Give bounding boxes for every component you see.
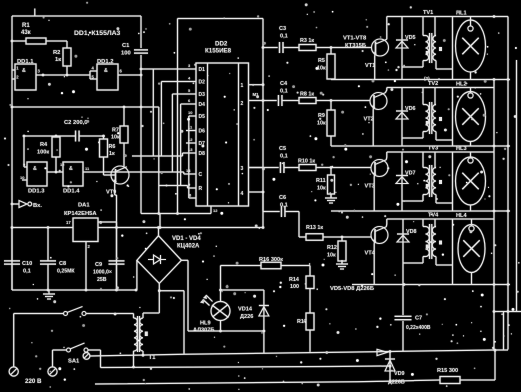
svg-text:КЦ402А: КЦ402А bbox=[177, 244, 200, 250]
svg-text:D8: D8 bbox=[199, 151, 206, 157]
svg-text:R17: R17 bbox=[297, 319, 307, 325]
svg-text:D4: D4 bbox=[199, 102, 206, 108]
svg-text:VD5-VD8 Д226Б: VD5-VD8 Д226Б bbox=[330, 286, 374, 292]
capacitor C9 bbox=[109, 260, 125, 262]
wire C2 left bbox=[23, 136, 25, 167]
svg-text:R12: R12 bbox=[327, 245, 337, 251]
svg-text:VD6: VD6 bbox=[405, 106, 416, 112]
capacitor C8 bbox=[40, 260, 56, 262]
svg-text:10к: 10к bbox=[317, 66, 326, 72]
wire rail ch3 bbox=[387, 151, 494, 153]
wire bridge bottom bbox=[158, 283, 160, 290]
plug pin 1 bbox=[9, 367, 18, 376]
svg-text:R5: R5 bbox=[318, 58, 325, 64]
svg-text:17: 17 bbox=[66, 220, 71, 225]
svg-text:C4: C4 bbox=[280, 81, 288, 87]
svg-text:D2: D2 bbox=[199, 80, 206, 86]
wire y213 bbox=[141, 213, 211, 215]
capacitor C3 bbox=[263, 47, 278, 49]
svg-text:R15 300: R15 300 bbox=[437, 368, 458, 374]
svg-text:R16 300к: R16 300к bbox=[259, 257, 283, 263]
svg-text:12: 12 bbox=[60, 162, 65, 167]
diode VD5 bbox=[401, 17, 403, 80]
svg-text:TV1: TV1 bbox=[423, 10, 433, 16]
wire left rail bbox=[11, 16, 13, 290]
capacitor C7 bbox=[402, 285, 404, 316]
svg-text:10: 10 bbox=[20, 175, 25, 180]
svg-text:10к: 10к bbox=[317, 186, 326, 192]
bridge VD1-VD4 bbox=[137, 236, 182, 284]
wire rail ch4 bbox=[387, 218, 494, 220]
svg-text:D6: D6 bbox=[199, 129, 206, 135]
wire pin row5 bbox=[189, 115, 196, 117]
svg-text:220 В: 220 В bbox=[25, 378, 42, 385]
wire long bus L1 bbox=[90, 350, 508, 356]
wire ladder v153 bbox=[152, 69, 154, 156]
svg-text:DD1.4: DD1.4 bbox=[63, 189, 80, 195]
svg-text:VD1 - VD4: VD1 - VD4 bbox=[172, 236, 201, 242]
transformer TV2 bbox=[429, 102, 431, 134]
wire block vert ch2 bbox=[452, 88, 454, 147]
lamp HL3 bbox=[456, 157, 486, 205]
svg-text:43к: 43к bbox=[21, 30, 31, 36]
wire bus ch2 bbox=[331, 145, 510, 147]
transistor VT2 bbox=[370, 93, 387, 110]
wire v263 bbox=[262, 19, 264, 228]
wire LED right link bbox=[221, 289, 264, 291]
wire pin row8 bbox=[189, 197, 196, 199]
gate DD1.4 bbox=[63, 162, 83, 186]
wire bus228 left bbox=[12, 227, 73, 229]
svg-text:R: R bbox=[199, 186, 203, 192]
transistor VT9 bbox=[111, 166, 129, 184]
svg-text:&: & bbox=[104, 68, 108, 74]
svg-text:D3: D3 bbox=[199, 92, 206, 98]
transformer TV4 bbox=[429, 224, 431, 259]
svg-text:R6: R6 bbox=[109, 144, 116, 150]
svg-text:VD5: VD5 bbox=[405, 35, 416, 41]
svg-text:100: 100 bbox=[290, 284, 299, 290]
wire ladder v161 bbox=[160, 82, 162, 157]
diode VD6 bbox=[401, 88, 403, 147]
svg-text:25В: 25В bbox=[97, 277, 107, 283]
capacitor C1 bbox=[134, 49, 148, 51]
svg-text:1: 1 bbox=[241, 83, 244, 89]
wire DA1 gnd pin bbox=[85, 242, 87, 291]
svg-text:КТ315Б: КТ315Б bbox=[345, 43, 366, 49]
svg-text:C5: C5 bbox=[279, 146, 286, 152]
lamp HL1 bbox=[456, 20, 486, 72]
wire DD1.2 out bbox=[118, 74, 141, 76]
svg-text:Т1: Т1 bbox=[149, 355, 157, 361]
wire LED bus bbox=[188, 330, 264, 332]
capacitor C10 bbox=[4, 260, 20, 262]
wire mains bot2 bbox=[88, 349, 101, 351]
svg-text:12: 12 bbox=[213, 208, 218, 213]
wire R15 up bbox=[494, 350, 496, 380]
wire pin row4 bbox=[181, 103, 196, 105]
svg-text:DA1: DA1 bbox=[78, 203, 90, 209]
IC DD2 outer loop bbox=[178, 18, 264, 20]
wire ladder v180 bbox=[180, 104, 182, 186]
transistor VT3 bbox=[371, 160, 388, 177]
capacitor C4 bbox=[263, 100, 277, 102]
IC DD2 box bbox=[196, 63, 249, 206]
wire mains top bbox=[14, 313, 64, 315]
resistor R2 bbox=[63, 48, 71, 66]
svg-text:2: 2 bbox=[241, 101, 244, 107]
wire VT3 collector bbox=[385, 152, 388, 160]
wire DD2 pin3 bbox=[249, 167, 264, 169]
wire DD2 pin4 bbox=[249, 191, 264, 193]
wire top rail block1 bbox=[12, 15, 141, 17]
svg-text:0,1: 0,1 bbox=[280, 154, 288, 160]
transformer TV3 bbox=[429, 165, 431, 197]
resistor R3 bbox=[299, 45, 316, 51]
resistor R5 bbox=[327, 54, 335, 79]
wire bridge left down bbox=[136, 260, 138, 290]
svg-text:13: 13 bbox=[188, 147, 193, 152]
svg-text:HL4: HL4 bbox=[456, 213, 467, 219]
svg-text:VT1: VT1 bbox=[365, 63, 375, 69]
svg-text:C7: C7 bbox=[415, 316, 422, 322]
wire pin row3 bbox=[172, 93, 196, 95]
svg-text:14: 14 bbox=[186, 168, 191, 173]
svg-text:0,1: 0,1 bbox=[23, 269, 31, 275]
transformer TV1 bbox=[429, 33, 431, 63]
svg-text:C9: C9 bbox=[95, 262, 102, 268]
resistor R12 bbox=[338, 241, 346, 261]
resistor R6 bbox=[100, 139, 108, 157]
svg-text:4: 4 bbox=[241, 191, 244, 197]
svg-text:VD14: VD14 bbox=[238, 307, 253, 313]
arrow on L1 bbox=[377, 349, 388, 355]
wire VT2 collector bbox=[385, 88, 387, 93]
wire VT3 emitter bbox=[373, 177, 375, 212]
svg-text:TV2: TV2 bbox=[428, 81, 438, 87]
svg-text:HL3: HL3 bbox=[456, 146, 467, 152]
svg-text:1к: 1к bbox=[109, 151, 115, 157]
svg-text:DD1, К155ЛА3: DD1, К155ЛА3 bbox=[74, 30, 121, 37]
svg-text:VD8: VD8 bbox=[406, 229, 417, 235]
wire rail ch2 bbox=[387, 87, 494, 89]
svg-text:DD1.2: DD1.2 bbox=[97, 59, 113, 65]
wire ladder v188 bbox=[188, 116, 190, 198]
wire DD1.3 out bbox=[47, 171, 63, 173]
svg-text:Вх.: Вх. bbox=[33, 203, 42, 209]
wire ladder v172 bbox=[171, 94, 173, 172]
resistor R15 bbox=[440, 377, 460, 384]
transistor VT1 bbox=[372, 39, 389, 56]
svg-text:C10: C10 bbox=[22, 261, 32, 267]
resistor R10 bbox=[299, 165, 316, 171]
svg-text:R11: R11 bbox=[316, 178, 326, 184]
wire right exit bbox=[494, 311, 521, 313]
svg-text:12: 12 bbox=[188, 137, 193, 142]
gate DD1.2 bbox=[97, 64, 118, 90]
svg-text:3: 3 bbox=[241, 166, 244, 172]
svg-text:HL2: HL2 bbox=[456, 82, 467, 88]
svg-text:0,1: 0,1 bbox=[280, 89, 288, 95]
wire pin row1 bbox=[141, 68, 196, 70]
svg-text:VT1-VT8: VT1-VT8 bbox=[343, 36, 367, 42]
svg-text:R1: R1 bbox=[22, 23, 30, 29]
svg-text:DD2: DD2 bbox=[215, 41, 228, 48]
resistor R11 bbox=[328, 175, 335, 194]
wire block vert ch1 bbox=[452, 17, 454, 80]
wire C6 drop bbox=[298, 212, 300, 238]
svg-text:100: 100 bbox=[121, 51, 131, 57]
svg-text:R13 1к: R13 1к bbox=[306, 225, 323, 231]
switch SA1 pole1 bbox=[64, 312, 68, 316]
wire right rail x508 bbox=[507, 17, 509, 350]
wire ladder h185 bbox=[159, 185, 188, 187]
wire block vert ch4 bbox=[452, 219, 454, 285]
svg-text:Д226: Д226 bbox=[240, 314, 253, 320]
svg-text:D5: D5 bbox=[199, 114, 206, 120]
terminal L1 left bbox=[83, 353, 90, 360]
svg-text:&: & bbox=[33, 166, 37, 172]
svg-text:R2: R2 bbox=[53, 50, 60, 56]
svg-text:VT3: VT3 bbox=[365, 184, 375, 190]
resistor R16 bbox=[261, 262, 281, 269]
IC DD2 bottom pin bbox=[210, 206, 212, 214]
wire rail ch1 bbox=[387, 16, 508, 18]
wire LED bottom bbox=[220, 321, 222, 332]
svg-text:1к: 1к bbox=[55, 57, 61, 63]
wire stub top bbox=[34, 9, 36, 17]
svg-text:C3: C3 bbox=[279, 26, 286, 32]
svg-text:HL9: HL9 bbox=[200, 321, 211, 327]
wire DA1 out pin bbox=[98, 221, 117, 223]
wire pin row2 bbox=[161, 81, 196, 83]
regulator DA1 bbox=[73, 218, 98, 242]
capacitor C2 bbox=[75, 131, 77, 142]
svg-text:100к: 100к bbox=[37, 150, 49, 156]
wire top rail block2 bbox=[12, 106, 159, 108]
wire DD2 pin1 bbox=[249, 84, 264, 86]
wire VT4 collector bbox=[385, 219, 388, 227]
svg-text:&: & bbox=[22, 68, 26, 74]
wire mains top2 bbox=[86, 313, 134, 315]
svg-text:C1: C1 bbox=[122, 43, 130, 49]
ground R12 bbox=[341, 260, 343, 264]
wire bridge right bbox=[181, 259, 188, 261]
svg-text:КР142ЕН5А: КР142ЕН5А bbox=[64, 211, 97, 217]
svg-text:Д226Б: Д226Б bbox=[388, 380, 405, 386]
svg-text:10к: 10к bbox=[317, 121, 326, 127]
wire ladder v158 bbox=[158, 107, 160, 214]
diode VD8 bbox=[402, 219, 404, 285]
svg-text:TV4: TV4 bbox=[428, 213, 439, 219]
svg-text:VT2: VT2 bbox=[364, 117, 374, 123]
LED HL9 bbox=[211, 302, 230, 321]
resistor R7 bbox=[120, 126, 128, 143]
wire right drop x503 bbox=[503, 312, 505, 350]
svg-text:C2 200,0: C2 200,0 bbox=[64, 120, 88, 126]
wire VT9 emitter bbox=[114, 184, 116, 196]
wire right rail x494 bbox=[493, 80, 495, 350]
resistor R8 bbox=[299, 98, 316, 104]
wire DD1.1 out bbox=[36, 74, 90, 76]
wire DD2 pin2 bbox=[249, 100, 264, 102]
wire right edge x516 bbox=[516, 60, 518, 312]
resistor R4 bbox=[52, 137, 60, 157]
svg-text:К155ИЕ8: К155ИЕ8 bbox=[205, 48, 232, 55]
resistor R17 bbox=[306, 313, 314, 330]
svg-text:C: C bbox=[199, 172, 203, 178]
wire ladder h174 bbox=[183, 172, 185, 174]
transformer T1 bbox=[137, 316, 139, 352]
svg-text:DD1.1: DD1.1 bbox=[17, 59, 34, 65]
resistor R1 bbox=[26, 38, 46, 44]
resistor R9 bbox=[327, 110, 335, 136]
wire bus228 right bbox=[98, 227, 263, 229]
diode VD14 bbox=[259, 305, 269, 307]
wire bundle v141 bbox=[140, 75, 142, 214]
resistor R14 bbox=[306, 276, 314, 289]
capacitor C5 bbox=[249, 167, 279, 169]
wire ground bus bbox=[12, 289, 136, 291]
wire DD1.4 out long bbox=[83, 171, 184, 173]
svg-text:D1: D1 bbox=[199, 67, 206, 73]
plug pin 2 bbox=[48, 367, 57, 376]
capacitor C6 bbox=[263, 211, 280, 213]
wire x160 drop bbox=[159, 214, 161, 228]
svg-text:R14: R14 bbox=[289, 277, 299, 283]
wire bus ch3 bbox=[331, 210, 510, 212]
wire VT1 collector bbox=[386, 17, 388, 40]
switch SA1 pole2 bbox=[67, 348, 71, 352]
svg-text:SA1: SA1 bbox=[68, 359, 80, 365]
wire bus ch1 bbox=[331, 79, 510, 81]
svg-text:R9: R9 bbox=[318, 113, 325, 119]
svg-text:R8 1к: R8 1к bbox=[300, 92, 314, 98]
svg-text:R3 1к: R3 1к bbox=[300, 38, 314, 44]
diode VD7 bbox=[401, 152, 403, 211]
svg-text:10: 10 bbox=[188, 110, 193, 115]
ground symbol main bbox=[48, 290, 50, 294]
lamp HL4 bbox=[458, 225, 485, 273]
wire pin row6 bbox=[186, 130, 196, 132]
lamp HL2 bbox=[456, 92, 486, 142]
gate DD1.3 bbox=[27, 162, 47, 186]
wire pin row7 bbox=[186, 142, 196, 144]
svg-text:0,25МК: 0,25МК bbox=[57, 269, 75, 275]
wire block vert ch3 bbox=[452, 152, 454, 211]
svg-text:1000,0×: 1000,0× bbox=[93, 270, 112, 276]
wire ladder h156 bbox=[132, 155, 183, 157]
svg-text:0,22х400В: 0,22х400В bbox=[406, 325, 431, 331]
wire VT1 emitter bbox=[374, 56, 376, 80]
svg-text:DD1.3: DD1.3 bbox=[28, 189, 45, 195]
ground R11 bbox=[330, 194, 332, 198]
diode VD9 bbox=[389, 351, 391, 383]
svg-text:&: & bbox=[69, 166, 73, 172]
wire VT4 emitter bbox=[373, 244, 375, 285]
gate DD1.1 bbox=[15, 64, 36, 90]
svg-text:C8: C8 bbox=[59, 261, 66, 267]
wire VT2 emitter bbox=[372, 110, 374, 147]
wire bus ch4 bbox=[352, 284, 510, 286]
svg-text:R10 1к: R10 1к bbox=[298, 159, 315, 165]
resistor R13 bbox=[306, 234, 323, 241]
wire LED top bbox=[220, 266, 222, 302]
svg-text:10к: 10к bbox=[327, 253, 336, 259]
svg-text:0,1: 0,1 bbox=[280, 203, 288, 209]
wire long bus L2 bbox=[101, 366, 391, 368]
svg-text:R4: R4 bbox=[40, 142, 48, 148]
svg-text:VD9: VD9 bbox=[394, 371, 405, 377]
wire long bus L3 bbox=[95, 381, 414, 384]
input terminal bbox=[12, 203, 19, 205]
svg-text:TV3: TV3 bbox=[428, 146, 438, 152]
svg-text:0,1: 0,1 bbox=[280, 34, 288, 40]
transistor VT4 bbox=[371, 227, 388, 244]
svg-text:10к: 10к bbox=[111, 135, 120, 141]
svg-text:VD7: VD7 bbox=[405, 171, 416, 177]
wire mains bot bbox=[53, 349, 67, 351]
wire bridge top bbox=[158, 228, 160, 236]
svg-text:(2): (2) bbox=[424, 76, 430, 81]
